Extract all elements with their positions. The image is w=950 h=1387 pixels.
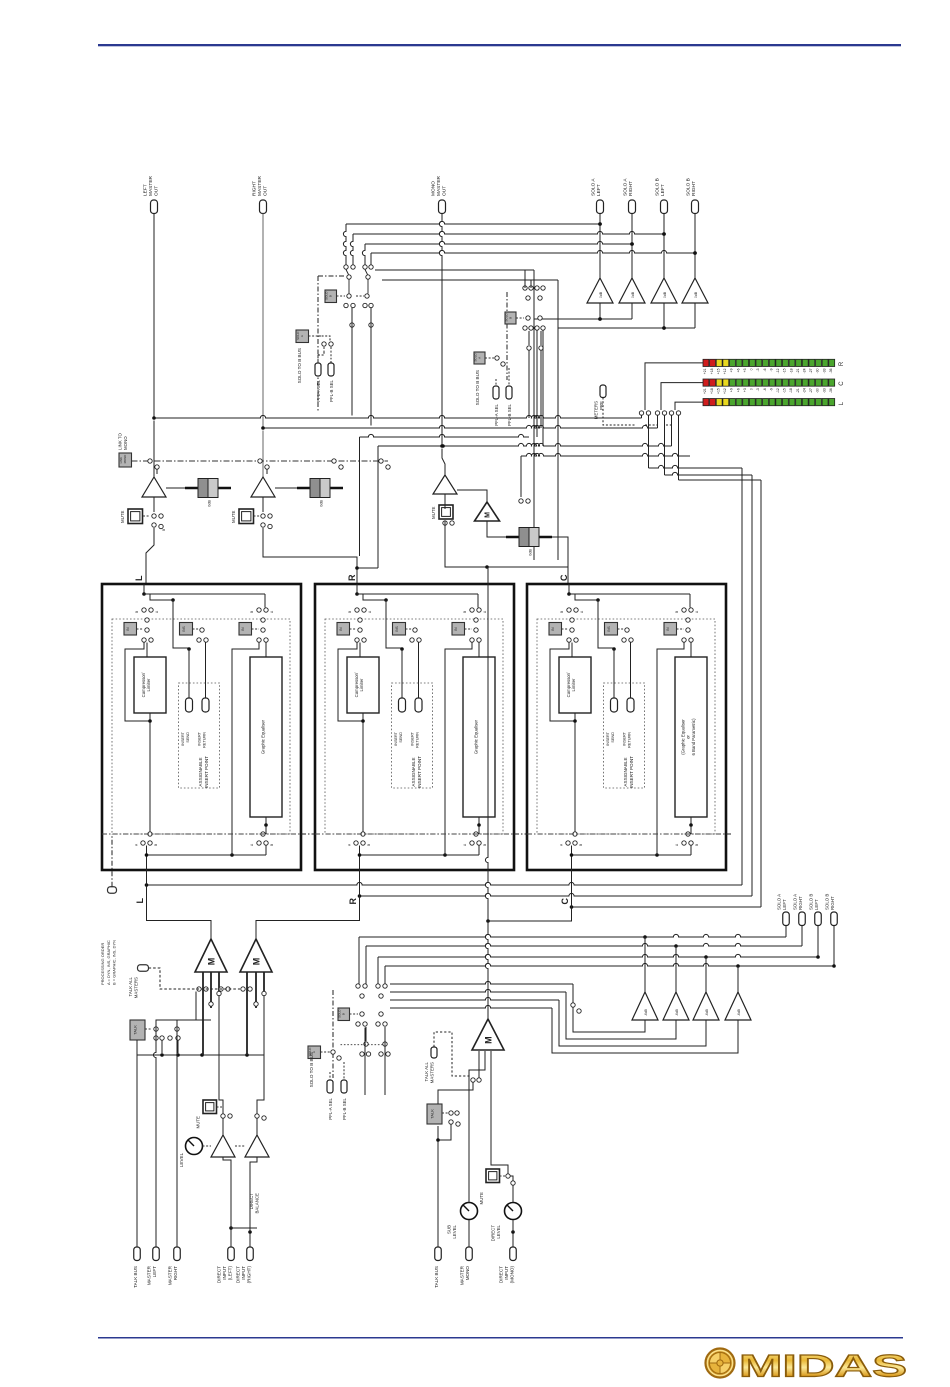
svg-text:ASSIGNABLE: ASSIGNABLE	[411, 757, 416, 786]
dashed insert region C	[537, 619, 715, 834]
wire master right to M1	[177, 992, 196, 1042]
svg-text:RETURN: RETURN	[416, 732, 420, 748]
connector INSERT RETURN C	[627, 698, 634, 712]
logo MIDAS wordmark	[739, 1348, 907, 1383]
compressor box C	[571, 643, 573, 658]
svg-text:+18: +18	[710, 368, 714, 374]
wire M3 to C block	[488, 870, 572, 922]
wire meters pre dashed	[603, 398, 636, 426]
compressor box R	[359, 643, 361, 658]
svg-text:6 Band Parametric): 6 Band Parametric)	[691, 718, 696, 756]
switch talk-all mono contacts	[471, 1078, 475, 1082]
wire solo link row 1	[360, 434, 530, 437]
wire R comp out	[362, 713, 364, 834]
svg-text:SOLO A: SOLO A	[777, 894, 782, 910]
switch box IN eq C	[664, 623, 677, 636]
svg-text:IN: IN	[666, 627, 670, 631]
wire solo feed horiz 2	[382, 279, 558, 281]
wire M3 output up	[485, 921, 488, 1019]
svg-text:MONO: MONO	[123, 436, 128, 450]
wire right master out	[262, 214, 264, 429]
wire L top distribution	[144, 593, 265, 595]
switch meter select R	[639, 411, 643, 415]
wire talk all dashed	[149, 968, 241, 989]
wire blend amp 1	[644, 937, 646, 992]
connector PFL B SEL	[328, 363, 334, 376]
op-amp master L buffer	[153, 421, 155, 478]
svg-text:C: C	[839, 381, 845, 386]
svg-text:SOLO A: SOLO A	[793, 894, 798, 910]
connector LEFT MASTER OUT	[151, 200, 158, 214]
wire solo feed vertical 1	[533, 270, 535, 560]
switch talk blend contacts	[571, 1003, 575, 1007]
svg-text:INSERT: INSERT	[606, 731, 610, 746]
svg-text:SOLO B: SOLO B	[809, 894, 814, 910]
svg-text:0dB: 0dB	[208, 500, 212, 507]
wire R solo taps	[359, 437, 361, 556]
op-amp master R buffer	[262, 431, 264, 478]
connector DIRECT INPUT MONO	[510, 1247, 517, 1261]
svg-text:+3: +3	[743, 388, 747, 392]
wire meter row L pre	[154, 415, 642, 418]
wire talk bus mono	[437, 1126, 439, 1247]
svg-text:DIRECT: DIRECT	[236, 1266, 241, 1283]
compressor box L	[146, 643, 148, 658]
switch C eq A/B	[682, 608, 686, 612]
svg-text:B: B	[329, 295, 333, 297]
connector mono PFL A SEL	[493, 386, 499, 399]
switch R comp A/B	[355, 608, 359, 612]
svg-text:INSERT: INSERT	[198, 731, 202, 746]
switch talk contacts	[154, 1027, 158, 1031]
wire R eq bypass	[445, 643, 472, 856]
wire tap row R	[360, 893, 753, 896]
logo MIDAS emblem	[706, 1349, 735, 1378]
switch bottom solo cluster contacts	[356, 984, 360, 988]
svg-text:SOLO B: SOLO B	[686, 178, 692, 196]
svg-text:RIGHT: RIGHT	[173, 1266, 178, 1280]
svg-text:-12: -12	[776, 388, 780, 393]
wire R comp bypass	[338, 643, 363, 722]
svg-text:M: M	[483, 1036, 493, 1044]
wire tap row C	[572, 906, 762, 908]
connector TALK BUS mono	[435, 1247, 442, 1261]
wire L eq out	[265, 817, 267, 834]
switch link contacts L	[148, 459, 152, 463]
svg-text:MASTER: MASTER	[168, 1265, 173, 1285]
svg-text:TALK ALL: TALK ALL	[424, 1061, 429, 1081]
connector SOLO A LEFT mid	[783, 912, 790, 926]
equaliser box R	[478, 643, 480, 658]
wire meter feed C	[661, 383, 703, 410]
assignable insert point box L	[179, 683, 220, 788]
wire meter row R post	[665, 472, 753, 475]
wire bottom solo row 3	[378, 954, 818, 957]
wire R input bottom	[359, 846, 361, 870]
svg-text:DIRECT: DIRECT	[249, 1193, 254, 1210]
svg-text:B = GRAPHIC, INS, DYN: B = GRAPHIC, INS, DYN	[112, 940, 117, 985]
svg-text:-6dB: -6dB	[705, 1009, 709, 1016]
op-amp solo amp A2	[619, 278, 645, 303]
switch R comp bottom	[361, 832, 365, 836]
wire L comp bypass	[125, 643, 150, 722]
wire blend return 3	[390, 997, 559, 1000]
op-amp solo amp A3	[651, 278, 677, 303]
svg-text:LEFT: LEFT	[143, 184, 149, 196]
svg-text:LEFT: LEFT	[660, 184, 666, 196]
connector INSERT SEND C	[611, 698, 618, 712]
switch box IN eq L	[239, 623, 252, 636]
connector bottom PFL A SEL	[327, 1080, 333, 1093]
svg-text:OUT: OUT	[262, 186, 268, 196]
switch box bottom SOLO A	[308, 1046, 321, 1059]
switch L comp bottom	[148, 832, 152, 836]
svg-text:INPUT: INPUT	[222, 1266, 227, 1280]
svg-text:-18: -18	[789, 368, 793, 373]
wire blend return 1	[390, 981, 573, 984]
dashed insert region R	[325, 619, 503, 834]
svg-text:Graphic Equaliser: Graphic Equaliser	[261, 719, 266, 754]
op-amp solo amp A4	[682, 278, 708, 303]
svg-text:+21: +21	[703, 368, 707, 374]
svg-text:ASSIGNABLE: ASSIGNABLE	[623, 757, 628, 786]
svg-text:Limiter: Limiter	[571, 678, 576, 691]
wire direct mono to M3	[512, 1186, 514, 1203]
wire master right	[176, 1041, 178, 1247]
svg-text:RIGHT: RIGHT	[628, 181, 634, 196]
svg-text:DIRECT: DIRECT	[499, 1266, 504, 1283]
wire mono chain down	[445, 521, 568, 584]
wire right bus vertical 3	[741, 468, 743, 885]
wire meter row C post	[679, 479, 762, 481]
svg-text:SOLO B: SOLO B	[655, 178, 661, 196]
svg-text:INS: INS	[395, 626, 399, 631]
wire M2 to R block	[256, 870, 360, 940]
svg-text:-9: -9	[769, 388, 773, 391]
svg-text:PFL-A SEL: PFL-A SEL	[316, 379, 321, 401]
svg-text:SOLO A: SOLO A	[623, 178, 629, 196]
connector SOLO B RIGHT mid	[831, 912, 838, 926]
svg-text:M: M	[485, 512, 492, 518]
svg-text:MUTE: MUTE	[196, 1116, 201, 1129]
svg-text:L: L	[134, 575, 144, 581]
svg-text:DIRECT: DIRECT	[217, 1266, 222, 1283]
meter bar R	[703, 359, 709, 366]
connector MASTER LEFT	[153, 1247, 160, 1261]
svg-text:IN: IN	[454, 627, 458, 631]
svg-text:MONO: MONO	[123, 454, 127, 464]
wire L insert send	[173, 600, 189, 648]
svg-text:RIGHT: RIGHT	[830, 896, 835, 910]
dash-dot assign line L	[102, 833, 301, 835]
op-amp direct inject R	[245, 1135, 269, 1157]
svg-text:Graphic Equaliser: Graphic Equaliser	[474, 719, 479, 754]
equaliser box L	[265, 643, 267, 658]
svg-text:LEFT: LEFT	[152, 1266, 157, 1277]
wire talk row	[137, 1054, 264, 1056]
summing amp M1	[195, 939, 227, 972]
wire solo cluster dashed frame	[317, 276, 319, 412]
switch solo cluster contacts row B	[347, 294, 351, 298]
knob LEVEL	[186, 1138, 203, 1155]
wire meter row L post	[649, 465, 743, 468]
svg-text:TALK BUS: TALK BUS	[434, 1266, 439, 1288]
svg-text:-30: -30	[816, 388, 820, 393]
svg-text:MASTERS: MASTERS	[429, 1062, 434, 1083]
svg-text:INSERT POINT: INSERT POINT	[629, 756, 634, 788]
connector SOLO A RIGHT mid	[799, 912, 806, 926]
switch box TALK mono	[427, 1104, 442, 1124]
wire L eq bypass	[232, 643, 259, 856]
svg-text:+9: +9	[730, 368, 734, 372]
connector SOLO A LEFT out	[597, 200, 604, 214]
svg-text:LEVEL: LEVEL	[179, 1152, 184, 1167]
wire C comp out	[574, 713, 576, 834]
fader mono 0dB	[506, 536, 552, 539]
wire left master out	[153, 214, 155, 419]
connector INSERT RETURN L	[202, 698, 209, 712]
wire C input bottom	[571, 846, 573, 870]
connector MASTER MONO	[466, 1247, 473, 1261]
svg-text:SOLO TO B BUS: SOLO TO B BUS	[297, 348, 302, 383]
knob SUB LEVEL	[468, 1220, 470, 1247]
wire meter row C pre	[378, 443, 672, 446]
assignable insert point box R	[392, 683, 433, 788]
page bottom rule	[98, 1337, 903, 1339]
switch meter select C	[655, 411, 659, 415]
wire solo amp inputs rail 2	[663, 303, 665, 328]
switch box SOLO A	[296, 330, 309, 343]
svg-text:M: M	[251, 958, 261, 966]
svg-text:PFL-B SEL: PFL-B SEL	[342, 1097, 347, 1120]
svg-text:METERS: METERS	[594, 401, 599, 419]
svg-text:B: B	[675, 611, 679, 613]
svg-text:Limiter: Limiter	[146, 678, 151, 691]
svg-text:MIDAS: MIDAS	[739, 1348, 907, 1383]
wire solo bus row 1	[346, 221, 600, 224]
svg-text:Limiter: Limiter	[359, 678, 364, 691]
switch L comp A/B	[142, 608, 146, 612]
switch box TALK left	[130, 1020, 145, 1040]
svg-text:B: B	[348, 611, 352, 613]
wire direct inject outs	[222, 1119, 224, 1136]
fader master L 0dB	[185, 487, 231, 490]
svg-text:B: B	[463, 611, 467, 613]
op-amp master mono buffer	[440, 444, 444, 448]
op-amp blend B4	[725, 992, 751, 1020]
svg-text:MONO: MONO	[465, 1266, 470, 1281]
svg-text:0dB: 0dB	[529, 549, 533, 556]
svg-text:LEVEL: LEVEL	[452, 1224, 457, 1238]
wire R insert return	[418, 643, 420, 699]
op-amp blend B3	[693, 992, 719, 1020]
connector METERS PRE	[600, 385, 606, 398]
wire blend amp 4	[737, 966, 739, 992]
svg-text:TALK: TALK	[132, 1025, 137, 1035]
switch box bottom SOLO B	[338, 1008, 350, 1021]
switch R eq A/B	[470, 608, 474, 612]
svg-text:+12: +12	[723, 388, 727, 394]
svg-text:(Graphic Equaliser: (Graphic Equaliser	[680, 719, 685, 755]
svg-text:-3: -3	[756, 368, 760, 371]
wire C insert return	[630, 643, 632, 699]
svg-text:+6: +6	[736, 388, 740, 392]
svg-text:B: B	[270, 844, 274, 846]
svg-text:SEND: SEND	[611, 732, 615, 743]
wire mono solo taps	[520, 456, 522, 497]
svg-text:C: C	[560, 898, 570, 905]
dash-dot assign line C	[527, 833, 726, 835]
svg-text:LEVEL: LEVEL	[496, 1224, 501, 1238]
wire meter row R pre	[263, 425, 658, 428]
svg-text:-27: -27	[809, 388, 813, 393]
svg-text:B: B	[250, 611, 254, 613]
svg-text:or: or	[686, 735, 691, 739]
svg-text:INPUT: INPUT	[241, 1266, 246, 1280]
connector RIGHT MASTER OUT	[260, 200, 267, 214]
wire R eq out	[478, 817, 480, 834]
op-amp mono sum M	[475, 502, 500, 521]
wire meter feed R	[645, 363, 703, 410]
wire talk bus left	[136, 1040, 138, 1247]
svg-text:PFL-B SEL: PFL-B SEL	[329, 379, 334, 402]
connector SOLO B LEFT mid	[815, 912, 822, 926]
svg-text:INS: INS	[182, 626, 186, 631]
svg-text:PFL-A SEL: PFL-A SEL	[328, 1097, 333, 1119]
fader master R 0dB	[297, 487, 343, 490]
svg-text:(RIGHT): (RIGHT)	[246, 1266, 251, 1284]
connector INSERT SEND L	[186, 698, 193, 712]
svg-text:-36: -36	[829, 388, 833, 393]
switch link contacts R	[258, 459, 262, 463]
svg-text:-6dB: -6dB	[737, 1009, 741, 1016]
svg-text:C: C	[559, 574, 569, 581]
svg-text:SOLO B: SOLO B	[825, 894, 830, 910]
svg-text:SUB: SUB	[447, 1225, 452, 1234]
meter bar C	[703, 379, 709, 386]
wire R output	[356, 584, 358, 594]
wire solo feed vertical 2	[557, 280, 559, 560]
switch meter select L	[669, 411, 673, 415]
svg-text:MASTER: MASTER	[460, 1265, 465, 1285]
svg-text:-33: -33	[822, 368, 826, 373]
svg-text:-6: -6	[763, 388, 767, 391]
svg-text:INSERT POINT: INSERT POINT	[204, 756, 209, 788]
svg-text:MUTE: MUTE	[231, 510, 236, 523]
svg-text:B: B	[162, 529, 166, 531]
svg-text:INSERT POINT: INSERT POINT	[417, 756, 422, 788]
op-amp solo amp A1	[587, 278, 613, 303]
wire solo amp 1 output	[599, 214, 601, 279]
svg-text:-6dB: -6dB	[644, 1009, 648, 1016]
wire link-to-mono dashed	[132, 460, 389, 462]
switch solo cluster contacts row A	[344, 265, 348, 269]
switch solo cluster contacts row C	[322, 342, 326, 346]
switch mute L	[153, 497, 155, 512]
svg-text:PFL-A SEL: PFL-A SEL	[494, 403, 499, 425]
dash-dot assign line R	[315, 833, 514, 835]
connector MASTER RIGHT	[174, 1247, 181, 1261]
svg-text:0: 0	[750, 388, 754, 390]
wire L into block	[146, 528, 154, 584]
switch box LINK TO MONO	[119, 453, 132, 467]
svg-text:B: B	[342, 1013, 346, 1015]
wire R into block	[263, 528, 357, 584]
wire blend amp 2	[675, 946, 677, 992]
svg-text:IN: IN	[339, 627, 343, 631]
svg-text:-33: -33	[822, 388, 826, 393]
svg-text:LEFT: LEFT	[782, 899, 787, 910]
switch box IN comp L	[124, 623, 137, 636]
svg-text:OUT: OUT	[441, 186, 447, 196]
svg-text:PFL-B SEL: PFL-B SEL	[507, 403, 512, 426]
connector MONO MASTER OUT	[439, 200, 446, 214]
wire mono cluster columns up	[524, 270, 526, 288]
wire mono master out	[439, 214, 442, 447]
svg-text:INS: INS	[607, 626, 611, 631]
op-amp blend B2	[663, 992, 689, 1020]
svg-text:-6: -6	[763, 368, 767, 371]
switch box INS L	[180, 623, 193, 636]
connector DIRECT INPUT LEFT	[228, 1247, 235, 1261]
connector PFL A SEL	[315, 363, 321, 376]
wire talk all mono dashed	[434, 1032, 471, 1076]
svg-text:-24: -24	[803, 368, 807, 373]
svg-text:B: B	[579, 844, 583, 846]
op-amp direct inject L	[211, 1135, 235, 1157]
svg-text:-21: -21	[796, 368, 800, 373]
wire bottom cluster taps	[364, 1028, 366, 1096]
connector TALK ALL MASTERS left	[138, 965, 149, 972]
svg-text:INSERT: INSERT	[181, 731, 185, 746]
wire blend return 4	[390, 1005, 552, 1008]
wire C eq out	[690, 817, 692, 834]
connector bottom PFL B SEL	[341, 1080, 347, 1093]
wire right bus vertical 2	[751, 475, 753, 896]
svg-text:PROCESSING ORDER: PROCESSING ORDER	[100, 943, 105, 985]
svg-text:B: B	[560, 611, 564, 613]
page top rule	[98, 44, 901, 46]
svg-text:MUTE: MUTE	[479, 1192, 484, 1205]
wire bottom solo row 2	[366, 943, 802, 946]
wire solo bus row 3	[365, 241, 632, 244]
wire solo bus row 2	[353, 231, 664, 234]
svg-text:A = DYN, INS, GRAPHIC: A = DYN, INS, GRAPHIC	[106, 940, 111, 985]
wire C eq bypass	[657, 643, 684, 856]
wire solo cluster columns down	[351, 308, 353, 416]
svg-text:SOLO TO B BUS: SOLO TO B BUS	[475, 370, 480, 405]
wire C output	[568, 584, 570, 594]
wire solo bus row 4	[371, 250, 695, 253]
svg-text:MASTER: MASTER	[436, 175, 442, 196]
wire M1 input rails	[202, 972, 204, 1055]
svg-text:MASTER: MASTER	[257, 175, 263, 196]
wire L output	[143, 584, 145, 594]
wire L comp out	[149, 713, 151, 834]
connector mono PFL B SEL	[506, 386, 512, 399]
switch L eq bottom	[261, 832, 265, 836]
wire meter feed L	[675, 402, 703, 410]
switch C comp A/B	[567, 608, 571, 612]
svg-text:-12: -12	[776, 368, 780, 373]
connector SOLO B RIGHT out	[692, 200, 699, 214]
svg-text:LEFT: LEFT	[814, 899, 819, 910]
svg-text:IN: IN	[241, 627, 245, 631]
svg-text:INSERT: INSERT	[623, 731, 627, 746]
wire L insert return	[205, 643, 207, 699]
switch mute direct	[203, 1100, 217, 1114]
svg-text:+15: +15	[716, 388, 720, 394]
